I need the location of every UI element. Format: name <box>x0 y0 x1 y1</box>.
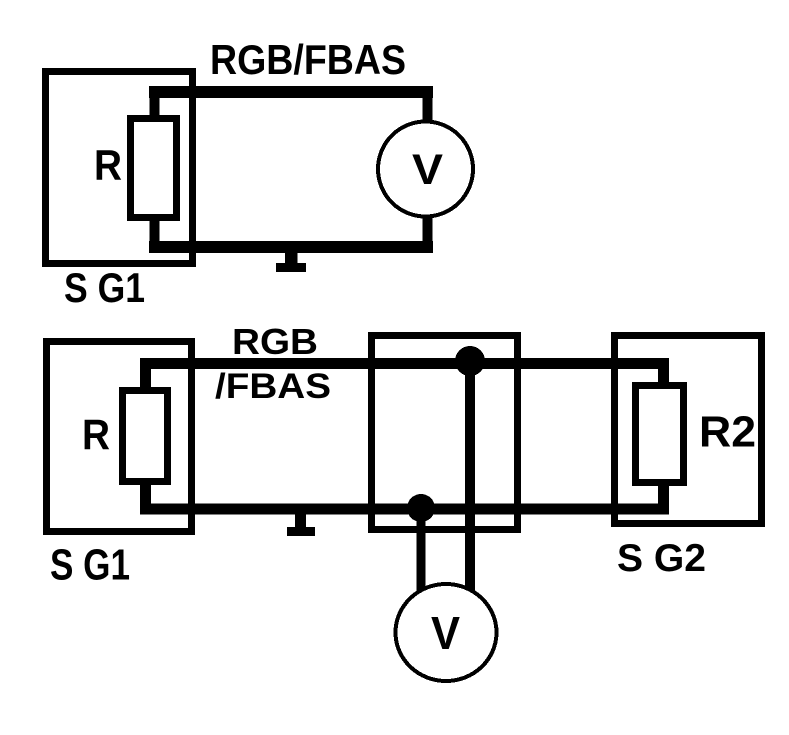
svg-text:S G1: S G1 <box>64 264 145 311</box>
svg-text:V: V <box>431 607 460 659</box>
svg-text:RGB: RGB <box>232 321 318 362</box>
svg-text:R: R <box>94 142 122 190</box>
svg-text:R2: R2 <box>699 408 756 457</box>
svg-text:V: V <box>412 146 443 194</box>
svg-text:S G2: S G2 <box>617 537 706 580</box>
svg-text:R: R <box>82 411 110 459</box>
svg-text:RGB/FBAS: RGB/FBAS <box>210 36 406 83</box>
svg-text:/FBAS: /FBAS <box>215 367 331 406</box>
svg-text:S G1: S G1 <box>50 541 130 590</box>
